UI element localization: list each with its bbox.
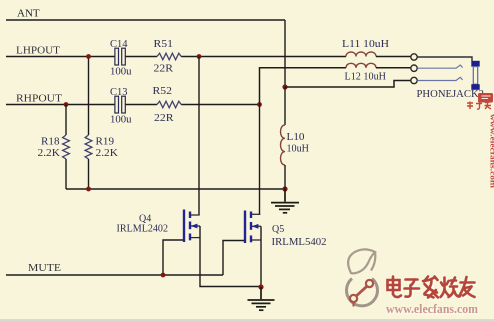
junction dot R19 top [86,54,91,59]
resistor R51 [154,39,182,75]
jack switch contact middle [417,65,462,68]
svg-text:R52: R52 [153,86,173,97]
capacitor C14 [110,39,132,78]
svg-text:R19: R19 [96,137,115,148]
svg-text:R51: R51 [154,39,174,50]
Q4 body stub + arrow [191,225,200,227]
Q5 gate wire from MUTE [223,241,244,276]
inductor L11 [342,39,389,57]
connector PHONEJACK2 pin circles [411,54,417,60]
Q5 drain stub [251,213,260,215]
svg-text:ANT: ANT [17,8,40,20]
svg-text:22R: 22R [154,113,174,124]
inductor L10 [281,87,310,189]
junction dot ANT/L10 [282,84,287,89]
wire ANT junction to jack sleeve [285,81,411,88]
svg-text:LHPOUT: LHPOUT [16,45,60,57]
Q5 source wire down [260,226,262,287]
junction dot Q4+Q5 source [258,284,263,289]
svg-text:10uH: 10uH [287,144,310,155]
transistor Q4 [117,210,261,287]
capacitor C13 [110,87,132,126]
wire bottom rail y=189 [66,188,285,190]
wire row L12 after coil [376,67,411,69]
Q4 gate bar [183,210,185,243]
watermark logo ring [347,279,378,307]
Q4 source wire down and right [200,226,261,287]
wire RHPOUT row2 left [6,104,115,106]
resistor R18 [38,105,70,190]
svg-text:100u: 100u [110,115,132,126]
resistor R52 [153,86,182,124]
wire riser x=199 row1 to Q4 drain [198,57,200,216]
svg-text:R18: R18 [41,137,60,148]
Q5 gate bar [244,211,246,244]
watermark chinese text 电子发烧友 [389,278,476,299]
wire L12 feed: corner from row2 up and right [260,68,347,105]
junction dot rail/R19 [86,187,91,192]
wire ANT horizontal y=20 [6,19,285,21]
svg-text:www.elecfans.com: www.elecfans.com [386,301,478,316]
jack body [471,61,479,90]
svg-text:IRLML2402: IRLML2402 [117,224,169,235]
svg-text:MUTE: MUTE [28,262,61,274]
wire LHPOUT row1 left [6,56,115,58]
resistor R19 [85,57,119,190]
svg-text:2.2K: 2.2K [38,148,61,159]
Q5 body stub + arrow [252,225,261,227]
Q4 drain stub [190,214,200,216]
wire row1 right to jack [181,56,346,58]
wire ANT vertical x=285 down to junction [284,20,286,87]
Q5 source stub [251,239,261,241]
wire MUTE [6,274,223,276]
wire riser x=259.5 down to Q5 drain [259,105,261,216]
wire row2 mid [126,104,158,106]
Q4 channel segments [189,212,191,219]
transistor Q5 [223,211,327,288]
ground under L10 [271,189,299,213]
wire row1 after L11 [376,56,411,58]
inductor L12 [345,63,387,82]
junction dot RHPOUT/R18 [64,102,69,107]
svg-text:IRLML5402: IRLML5402 [272,237,327,248]
svg-text:2.2K: 2.2K [96,148,119,159]
svg-text:Q5: Q5 [272,224,284,235]
wire row2 right [181,104,259,106]
side banner small red glyphs [467,102,491,110]
svg-text:L11 10uH: L11 10uH [342,39,389,50]
junction dot rail/L10 [282,186,287,191]
side banner icon [478,93,493,103]
svg-text:L12 10uH: L12 10uH [345,72,387,83]
wire jack tip to body [417,57,472,61]
ground under Q5 source [248,287,275,310]
jack switch contact bottom [417,77,462,80]
watermark logo leaf [348,249,375,273]
junction dot row1/gate line [197,54,202,59]
svg-text:www.elecfans.com: www.elecfans.com [489,114,494,189]
junction dot MUTE/Q4 gate [161,273,166,278]
svg-text:RHPOUT: RHPOUT [16,93,62,105]
svg-text:L10: L10 [287,132,305,143]
Q5 channel segments [250,212,252,219]
junction dot row2/L12 riser [257,102,262,107]
Q4 source stub [190,237,200,239]
svg-text:PHONEJACK2: PHONEJACK2 [417,88,485,100]
Q4 gate wire from MUTE [163,240,183,275]
svg-text:22R: 22R [154,64,174,75]
svg-text:100u: 100u [110,67,132,78]
wire row1 mid [126,56,158,58]
